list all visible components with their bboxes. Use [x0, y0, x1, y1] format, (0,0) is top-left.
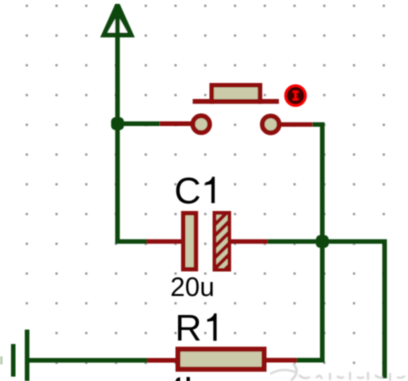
- power terminal arrow (VCC): [100, 4, 135, 38]
- wire: switch right terminal down right rail to resistor right: [297, 125, 323, 361]
- capacitor C1 pin left: [147, 239, 182, 244]
- svg-text:C: C: [174, 170, 201, 211]
- label R1: [175, 308, 217, 349]
- resistor R1 body: [178, 349, 264, 369]
- junction node B (cap right / right rail): [316, 235, 329, 248]
- label C1: [174, 170, 215, 211]
- battery B1 negative plate (short): [11, 344, 16, 377]
- battery B1 positive plate (tall): [25, 330, 30, 381]
- capacitor C1 left plate: [183, 213, 196, 269]
- pushbutton pin 2 (right): [280, 122, 312, 127]
- interactive button indicator (red circle with I): [286, 86, 306, 106]
- svg-text:20u: 20u: [170, 272, 214, 302]
- wire: battery to resistor left: [27, 358, 148, 363]
- wire: power arrow stem down to capacitor-left corner: [118, 6, 148, 242]
- resistor R1 pin left: [147, 358, 177, 363]
- pushbutton terminal circle right: [262, 116, 279, 133]
- junction node A (power rail / switch tap): [111, 117, 124, 130]
- capacitor C1 pin right: [231, 239, 268, 244]
- wire: capacitor right to right edge drop: [268, 242, 385, 379]
- wire: junction to switch left terminal: [118, 121, 160, 126]
- wire stub at left edge (pale): [0, 356, 3, 364]
- pushbutton terminal circle left: [193, 116, 210, 133]
- resistor R1 pin right: [266, 358, 297, 363]
- pushbutton actuator bar: [193, 99, 279, 104]
- pushbutton cap (plunger): [212, 85, 260, 104]
- svg-text:R: R: [175, 308, 202, 349]
- capacitor C1 right plate (hatched, polarized): [206, 194, 240, 283]
- watermark wisps bottom right: [270, 364, 405, 381]
- pushbutton pin 1 (left): [160, 121, 192, 126]
- value label 1k (clipped at bottom edge): [175, 377, 190, 381]
